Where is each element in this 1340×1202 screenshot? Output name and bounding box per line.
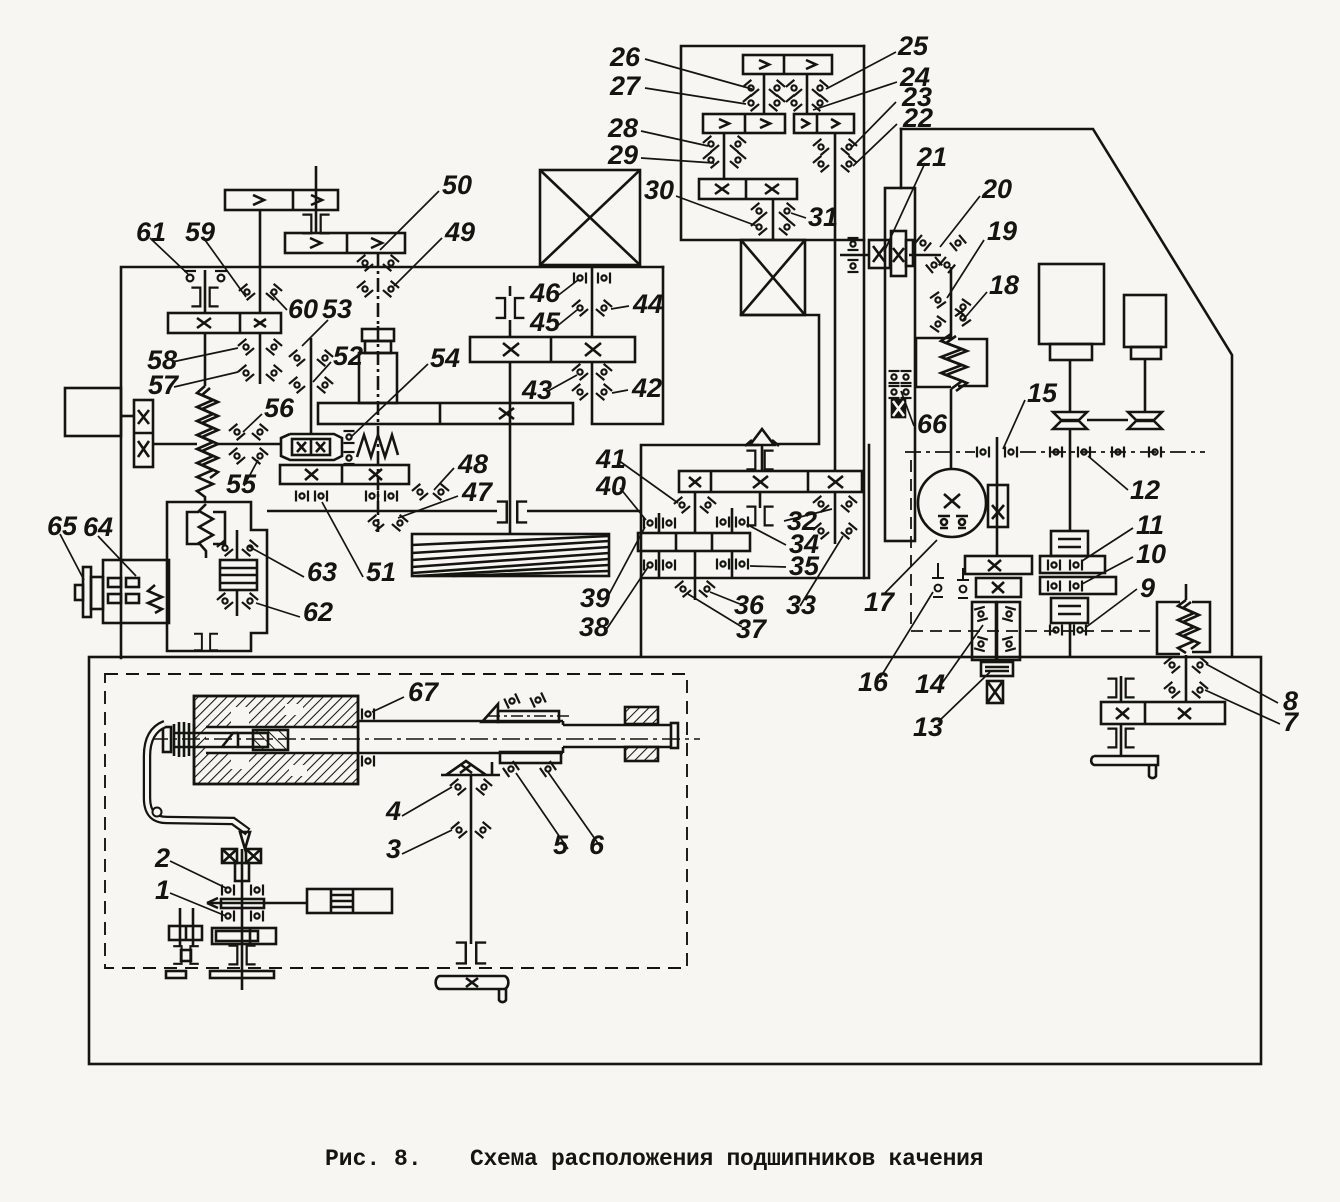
gear bar 54 [318,403,573,424]
big bottom box [89,657,1261,1064]
svg-text:19: 19 [987,216,1017,246]
svg-text:41: 41 [595,444,626,474]
bearings 23 22 at shaft 22 [813,139,829,155]
svg-text:17: 17 [864,587,896,617]
bearings 12 on centerline [1050,447,1062,458]
svg-text:7: 7 [1283,707,1300,737]
svg-text:22: 22 [902,103,933,133]
bearings 30 31 at shaft III [751,203,767,219]
clutch 21 nub [906,240,913,266]
svg-text:18: 18 [989,270,1019,300]
handle tip [240,832,250,849]
dashed apron box [911,460,1150,631]
gear pair 28/27 [703,114,785,133]
shaft 63 [236,530,239,560]
spindle left end rings [163,727,171,752]
bearings 9 on dash line [1050,625,1062,636]
chuck upper rect [498,711,559,722]
jack 52 body [359,353,397,403]
thrust seat shaft 3 [456,943,486,964]
shaft I top box left [763,74,766,114]
bearings 43 42 [572,364,588,380]
bearings 1 [222,911,234,922]
thrust seat shaft 1 [228,946,255,965]
svg-text:55: 55 [226,469,257,499]
gear pair 60/49 [285,233,405,253]
svg-text:47: 47 [461,477,494,507]
bearings 38 lower [644,560,656,571]
striped gear 63 [220,560,257,590]
bearings 5 6 [503,761,519,777]
svg-text:21: 21 [916,142,947,172]
svg-text:12: 12 [1130,475,1160,505]
bearings 10 in bar [1048,581,1060,592]
svg-text:5: 5 [553,830,569,860]
shaft 33 lower [834,492,837,544]
bearings chuck [504,693,520,708]
svg-text:54: 54 [430,343,460,373]
leader lines [645,59,752,89]
spring coupling 19 left block [916,338,951,387]
coupling X-square top [741,240,805,315]
svg-text:29: 29 [607,140,638,170]
bearings 50 49 at shaft 52 [357,255,373,271]
shaft 43 lower [509,362,512,534]
quill hatched insert [253,730,288,750]
spindle inner lines [175,727,358,753]
handle lever [147,724,248,832]
bearings 33 [813,523,829,539]
shaft VI lower [204,333,207,386]
gear pair 48/51 [280,465,409,484]
svg-text:56: 56 [264,393,295,423]
spring 8 left block [1157,602,1180,654]
bearings 55 [229,448,245,464]
bearings 36 37 [675,581,691,597]
clutch 55 body [281,434,342,460]
bearings 25 24 at shaft I right [786,80,802,96]
spring 8 zigzag [1185,584,1188,600]
plate hook [499,989,506,1002]
svg-text:66: 66 [917,409,948,439]
svg-text:50: 50 [442,170,472,200]
chuck lower rect [500,752,561,763]
outline stub left of tall rect [900,129,903,188]
clutch 21 horizontal shaft [840,254,869,257]
gear block 11 top [1051,531,1088,556]
shaft 19 vertical [950,267,953,338]
left idler pair [179,908,182,947]
svg-text:10: 10 [1136,539,1166,569]
gearbox 1 [212,928,276,944]
thrust seat shaft IV [302,215,329,234]
shaft II [723,133,726,179]
bearings 53 [289,350,305,366]
spindle body [358,721,672,753]
bearings 4 [450,779,466,795]
motor 1 shaft [1069,360,1072,412]
arrow input middle box [750,429,774,445]
gear pair 29/30 [699,179,797,199]
bearings 2 [222,885,234,896]
gear pair 43/42 [470,337,635,362]
bearings 58 [238,339,254,355]
svg-text:1: 1 [155,875,170,905]
pulley 1 [1053,412,1087,420]
shaft 34 lower [759,492,762,508]
gear bar 2 [221,899,264,908]
svg-text:11: 11 [1136,510,1164,540]
spindle nose cap [671,723,678,748]
svg-text:27: 27 [609,71,642,101]
svg-text:51: 51 [366,557,396,587]
svg-text:35: 35 [789,551,820,581]
spring coupling 19 right block [958,339,987,386]
shaft 8 [1185,655,1188,702]
feed box 64/65 [103,560,169,623]
svg-text:13: 13 [913,712,943,742]
gear 15 block [988,485,1008,527]
spring 54 zigzag [357,435,398,457]
input shaft horizontal [153,443,197,446]
headstock hatched housing [194,696,358,784]
gear pair 23/24 [794,114,854,133]
svg-text:Рис. 8.: Рис. 8. [325,1146,422,1172]
motor link left box [121,415,134,418]
svg-text:28: 28 [607,113,638,143]
shaft 10 lower [1069,623,1072,656]
bearings 46 [574,273,586,284]
svg-text:30: 30 [644,175,674,205]
bearings 19 18 [930,292,946,308]
jack 52 upper collar [362,329,394,341]
shaft 35 [731,508,734,533]
bearing bar 11 [1040,556,1105,573]
svg-text:37: 37 [736,614,768,644]
bearings 3 [451,822,467,838]
svg-text:45: 45 [529,307,561,337]
bearing bar 10 [1040,577,1116,594]
thrust seat 62-box bottom [194,634,218,651]
thrust seat shaft VI [191,288,218,307]
bearing block 39/38 [638,533,750,551]
clutch 21 left box [869,240,890,268]
shaft III [772,199,775,240]
svg-text:3: 3 [386,834,401,864]
motor flange 65 [83,567,91,617]
spindle centerline [150,738,700,740]
gear triple 41/32/33 [679,471,862,492]
vertical feed shaft 3/4 [470,775,473,944]
bearings 7 [1164,682,1180,698]
left gearbox top edge [121,267,663,658]
shaft IV [315,166,318,233]
bearings 67 [362,709,374,720]
gear pair 7 [1101,702,1225,724]
bearings 48 47 [412,484,428,500]
jack screw centerline [377,253,380,532]
tumbler block 13/14 [972,602,996,660]
bearings 62 [217,593,233,609]
shaft 12 [1069,429,1072,531]
motor 1 [1039,264,1104,344]
tall rectangle frame right [885,188,915,541]
shaft 47 horizontal [267,510,497,513]
support hatched blocks shaft 2 [222,849,237,863]
rack hook [1149,765,1156,778]
shaft 15 [996,437,999,556]
thrust seat idler [173,946,199,964]
middle gearbox 38-41 [641,445,758,656]
shaft 39 [658,513,661,533]
svg-text:52: 52 [333,341,363,371]
gearbox 62-65 outline [167,502,267,651]
svg-text:39: 39 [580,583,610,613]
svg-text:26: 26 [609,42,641,72]
bottom plate [436,976,509,989]
leadscrew hatched [412,534,609,576]
link to clutch [207,902,307,905]
bearings 63 [217,540,233,556]
spring coupling zigzag [941,334,962,389]
gear block 9 bottom [1051,598,1088,623]
thrust seat shaft 32 [746,451,773,470]
bearings 45 44 [572,300,588,316]
shaft 7 vertical [1120,676,1123,702]
overload clutch circle 16 [918,469,986,537]
spring seat brackets in 62-box [187,512,199,544]
bearings 47 below shaft [368,515,384,531]
thrust seat shaft 43 [496,298,525,318]
bearings 39 upper [644,518,656,529]
bearings 28 29 at shaft II [703,136,719,152]
bearings 32 [813,496,829,512]
svg-text:42: 42 [631,373,662,403]
shaft VI upper [204,270,207,313]
belt line [1087,419,1128,422]
top gearbox right edge long vertical [863,46,866,578]
bearings 57 [238,365,254,381]
thrust seat leadscrew [497,502,527,523]
spring 8 right block [1192,602,1210,652]
svg-text:33: 33 [786,590,816,620]
thrust seat shaft 34 [746,507,773,526]
tumbler seats 16 [932,563,969,598]
thrust cone under spindle [441,761,500,775]
shaft I top box right [806,74,809,114]
svg-text:48: 48 [457,449,488,479]
motor box far left [65,388,121,436]
thrust seat shaft 7 lower [1107,729,1134,748]
bearings 61 [184,271,196,281]
dashed spindle compartment box [105,674,687,968]
svg-text:9: 9 [1140,573,1155,603]
svg-text:Схема расположения подшипников: Схема расположения подшипников качения [470,1146,983,1172]
jack 52 lower collar [365,341,391,353]
clutch 21 sleeve [891,231,906,276]
shaft V lower [259,333,262,384]
rack bar 7 [1091,756,1158,765]
bearings 41 40 [674,497,690,513]
thrust seat shaft 7 upper [1107,679,1134,698]
motor 2 [1124,295,1166,347]
svg-text:2: 2 [154,843,170,873]
svg-text:15: 15 [1027,378,1058,408]
bearings 20 [915,235,931,251]
shaft 45 [591,268,594,337]
shaft 1/2 vertical [241,849,244,990]
shaft 40 [694,492,697,533]
tumbler X square [987,681,1003,703]
svg-text:38: 38 [579,612,609,642]
svg-text:44: 44 [632,289,663,319]
bearings 56 [229,424,245,440]
svg-text:25: 25 [897,31,929,61]
shaft 22 vertical [834,133,837,471]
clutch box apron [307,889,392,913]
svg-text:58: 58 [147,345,177,375]
cylinder on shaft 2 [235,863,249,881]
gear pair 26/25 top [743,55,832,74]
spring shaft VI double zigzag [197,386,213,502]
bearings 35 lower [717,559,729,570]
svg-text:65: 65 [47,511,78,541]
svg-text:20: 20 [981,174,1012,204]
bearings 59 60 [239,284,255,300]
svg-text:31: 31 [808,202,838,232]
shaft V [259,210,262,313]
gear 13 bar [976,578,1021,597]
bearings 51 below gear 48 [296,491,308,502]
left gearbox right edge / bearing column [592,267,663,424]
svg-text:14: 14 [915,669,945,699]
svg-text:59: 59 [185,217,215,247]
top gearbox [681,46,864,240]
bearing stack left of clutch 21 [848,238,859,250]
svg-text:67: 67 [408,677,440,707]
bearings 34 upper [717,517,729,528]
gear pair 59/50 top-left [225,190,338,210]
bearings 66 [889,371,900,383]
svg-text:61: 61 [136,217,166,247]
svg-text:49: 49 [444,217,475,247]
svg-text:6: 6 [589,830,605,860]
svg-text:60: 60 [288,294,318,324]
bearings 14 in tumbler [974,607,988,621]
gear 14 bar [965,556,1032,574]
shaft 32 stub [761,445,764,471]
svg-text:63: 63 [307,557,337,587]
shaft 53 [310,338,313,434]
shaft 43 upper [509,286,512,296]
svg-text:40: 40 [595,471,626,501]
chuck flag [482,704,498,722]
tumbler flange [981,662,1013,676]
flange 1 [210,971,274,978]
svg-text:64: 64 [83,512,113,542]
pulley 2 [1128,412,1162,420]
svg-text:53: 53 [322,294,352,324]
svg-text:46: 46 [529,278,561,308]
outer outline upper right [901,129,1232,656]
svg-text:4: 4 [385,796,401,826]
bearings 26 27 at shaft I left [743,80,759,96]
bearing stack clutch 55 [344,431,355,443]
svg-text:43: 43 [521,375,552,405]
coupling 66 X mark [892,400,905,417]
bearings 15 on centerline [977,447,989,458]
svg-text:62: 62 [303,597,333,627]
tailstock quill blocks [625,707,658,724]
gear block X X left [134,400,153,467]
gear pair 58/57 [168,313,281,333]
svg-text:16: 16 [858,667,889,697]
centerline 12 dash-dot [905,451,1205,453]
bearings 8 [1164,657,1180,673]
motor 2 shaft [1144,359,1147,412]
drive X-square left [540,170,640,265]
bearings 11 in bar [1048,560,1060,571]
